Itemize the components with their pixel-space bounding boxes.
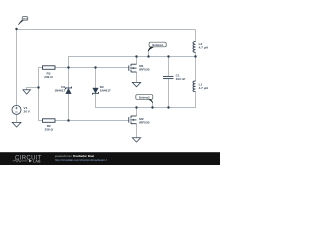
svg-text:20 V: 20 V <box>24 110 31 114</box>
resistor R2 <box>43 119 56 132</box>
wire D2 bottom to rail3 <box>96 93 196 107</box>
svg-text:VDD: VDD <box>23 18 28 20</box>
voltage source V1 <box>12 105 31 114</box>
capacitor C1 <box>163 76 173 78</box>
footer logo LAB <box>29 159 32 162</box>
wire left rail <box>16 29 18 106</box>
wire M1 drain lead <box>136 57 138 65</box>
transistor M1 <box>129 64 137 72</box>
ground left bias <box>23 90 31 94</box>
svg-text:Bobina2: Bobina2 <box>139 95 150 99</box>
ground below M1 <box>132 82 140 86</box>
svg-text:239 Ω: 239 Ω <box>44 127 53 131</box>
node D2 top junction <box>94 66 96 68</box>
wire gate net M1 <box>55 67 129 69</box>
node ground tee <box>37 86 39 88</box>
wire L1 bottom lead <box>195 92 197 103</box>
footer logo squiggle <box>13 160 28 163</box>
node R3/D1/rail2 junction <box>67 66 69 68</box>
wire gate net M2 <box>55 120 129 122</box>
wire rail2 drain net <box>69 57 196 68</box>
svg-text:4.7 μH: 4.7 μH <box>199 86 209 90</box>
svg-text:Bobina1: Bobina1 <box>152 43 163 47</box>
wire L2 top lead <box>195 30 197 42</box>
svg-text:1N4617: 1N4617 <box>100 89 111 93</box>
svg-text:IRF530: IRF530 <box>139 121 149 125</box>
resistor R3 <box>43 66 56 79</box>
zener diode D1 <box>54 85 71 94</box>
node L2 bottom junction <box>194 55 196 57</box>
wire left bias vertical <box>38 68 40 121</box>
node VDD corner <box>15 28 17 30</box>
wire L2 to L1 vertical <box>195 52 197 81</box>
node C1 top junction <box>167 55 169 57</box>
wire R3 left lead <box>38 67 43 69</box>
ground below M2 <box>132 138 140 142</box>
inductor L2 <box>193 42 195 53</box>
node junction dots <box>15 28 196 122</box>
flag Bobina1 <box>148 42 166 51</box>
node C1 bottom junction <box>167 106 169 108</box>
svg-text:4.7 μH: 4.7 μH <box>199 45 209 49</box>
wire R2 left lead <box>38 120 43 122</box>
wire M1 source lead <box>136 72 138 82</box>
node D1 bottom junction <box>67 119 69 121</box>
ground below V1 <box>12 122 21 127</box>
svg-text:1N4617: 1N4617 <box>54 89 65 93</box>
svg-text:100 nF: 100 nF <box>176 77 186 81</box>
wire Bobina1 stub <box>148 51 150 57</box>
wire top rail VDD <box>17 29 196 31</box>
flag VDD <box>18 17 28 25</box>
wire M2 source lead <box>136 124 138 138</box>
wire C1 top lead <box>168 57 170 77</box>
wire D1 top lead <box>68 68 70 88</box>
svg-text:IRF530: IRF530 <box>139 68 149 72</box>
zener diode D2 <box>93 85 111 95</box>
node M1 drain junction <box>135 55 137 57</box>
wire D1 bottom lead <box>68 94 70 121</box>
node M2 drain junction <box>135 106 137 108</box>
wire ground branch <box>27 88 39 91</box>
wire C1 bottom lead <box>168 79 170 108</box>
wire V1 bottom lead <box>16 114 18 122</box>
transistor M2 <box>129 116 137 124</box>
flag Bobina2 <box>136 95 153 103</box>
svg-text:239 Ω: 239 Ω <box>44 75 53 79</box>
svg-text:http://circuitlab.com/c6m2prv4: http://circuitlab.com/c6m2prv4t/oscilado… <box>55 158 107 162</box>
wire Bobina2 stub <box>152 102 154 107</box>
wire M2 drain lead <box>136 108 138 117</box>
svg-text:LAB: LAB <box>33 158 41 163</box>
node Bobina1 junction <box>147 55 149 57</box>
inductor L1 <box>193 81 195 92</box>
wire D2 top lead <box>95 68 97 88</box>
node Bobina2 junction <box>151 106 153 108</box>
footer bar <box>0 152 220 165</box>
